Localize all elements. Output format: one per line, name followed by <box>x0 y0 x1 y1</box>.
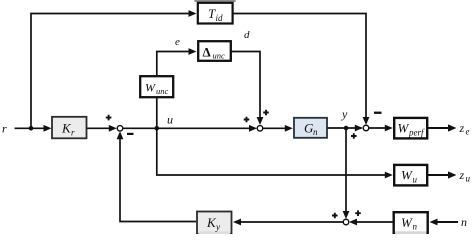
svg-text:z: z <box>459 168 465 182</box>
node junction on r wire <box>29 126 34 131</box>
wire S2 to G_n <box>263 125 293 132</box>
block G_n <box>294 118 327 138</box>
label u <box>167 113 173 127</box>
label z_e <box>459 121 470 137</box>
block W_unc <box>140 76 173 97</box>
svg-text:W: W <box>401 215 413 230</box>
label n <box>461 215 467 229</box>
svg-text:d: d <box>244 29 250 41</box>
block K_y <box>197 212 232 235</box>
label plus left of S4 <box>332 213 338 219</box>
svg-text:e: e <box>175 36 180 48</box>
label plus below-left of S3 <box>351 133 357 139</box>
label plus left of S2 <box>244 117 250 123</box>
svg-text:y: y <box>215 222 220 232</box>
summing junction S3 <box>363 125 369 131</box>
svg-text:u: u <box>167 113 173 127</box>
block T_id <box>194 0 235 24</box>
wire n to W_n <box>430 219 459 226</box>
label minus at S3 <box>374 112 382 114</box>
block Delta_unc <box>198 41 231 61</box>
wire junction up to T_id <box>31 10 197 128</box>
block W_perf <box>394 118 427 138</box>
summing junction S1 <box>117 126 123 132</box>
label plus at S1 <box>106 115 112 121</box>
label r <box>2 122 7 136</box>
svg-text:Δ: Δ <box>203 45 211 60</box>
svg-text:e: e <box>466 127 470 137</box>
svg-text:y: y <box>341 107 348 121</box>
svg-text:n: n <box>313 127 318 137</box>
wire G_n to S3 <box>328 125 363 132</box>
wire S1 to S2 (u line) <box>123 125 257 132</box>
wire W_perf to z_e <box>428 124 457 131</box>
node junction y <box>344 126 349 131</box>
svg-text:n: n <box>413 222 418 232</box>
svg-text:u: u <box>413 175 418 185</box>
wire W_n to S4 <box>349 219 393 226</box>
svg-text:W: W <box>145 81 156 95</box>
wire T_id output down to sum S3 <box>234 14 370 126</box>
node junction u <box>155 126 160 131</box>
svg-text:r: r <box>2 122 7 136</box>
wire W_u to z_u <box>428 171 457 178</box>
svg-text:perf: perf <box>408 128 425 138</box>
label minus at S1 <box>127 133 134 135</box>
label plus right of S4 <box>355 210 361 216</box>
svg-text:W: W <box>398 121 410 136</box>
svg-text:n: n <box>461 215 467 229</box>
wire S4 to K_y <box>233 219 343 226</box>
summing junction S2 <box>257 126 263 132</box>
wire Delta_unc output down to S2 (d wire) <box>232 52 264 126</box>
block W_u <box>394 165 427 186</box>
block K_r <box>52 117 87 139</box>
wire K_r to sum S1 <box>87 125 117 132</box>
block W_n <box>394 212 428 234</box>
wire W_unc up to Delta_unc (e wire) <box>157 48 197 76</box>
label plus above-right of S2 <box>263 110 269 116</box>
wire K_y feedback to S1 <box>117 131 196 221</box>
svg-text:u: u <box>466 174 471 184</box>
label e <box>175 36 180 48</box>
wire y branch down to S4 <box>343 128 350 219</box>
summing junction S4 <box>343 219 349 225</box>
label d <box>244 29 250 41</box>
svg-text:unc: unc <box>213 51 226 61</box>
svg-text:r: r <box>71 128 75 138</box>
label y <box>341 107 348 121</box>
label z_u <box>459 168 471 184</box>
wire r input to K_r <box>15 125 52 132</box>
svg-text:z: z <box>459 121 465 135</box>
svg-text:unc: unc <box>156 86 169 96</box>
wire u up into W_unc <box>156 98 158 129</box>
svg-text:id: id <box>216 13 224 23</box>
svg-text:W: W <box>401 168 413 183</box>
wire S3 to W_perf <box>369 125 393 132</box>
wire u branch down to W_u <box>157 128 393 178</box>
